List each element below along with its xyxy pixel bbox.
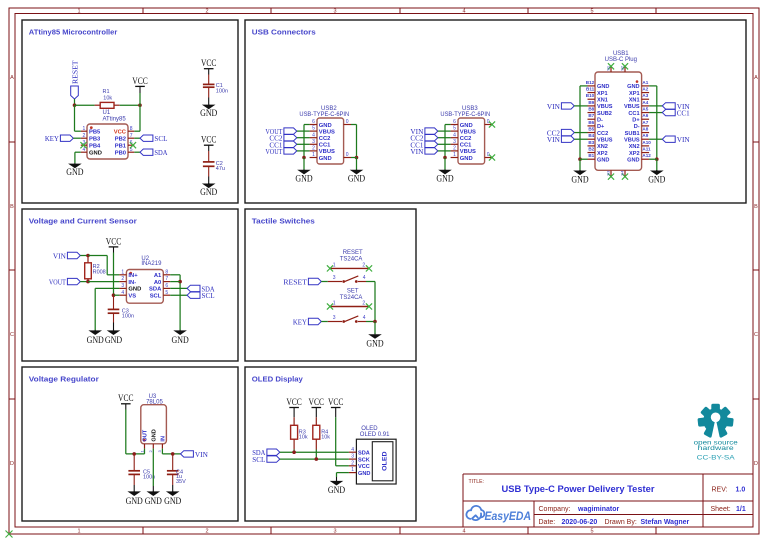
svg-text:A: A	[754, 75, 758, 81]
svg-text:8: 8	[130, 126, 133, 132]
svg-text:B1: B1	[588, 153, 594, 158]
svg-text:4: 4	[363, 315, 366, 321]
svg-text:A4: A4	[642, 100, 648, 105]
svg-text:VS: VS	[128, 294, 136, 300]
svg-text:GND: GND	[200, 187, 218, 197]
svg-text:VCC: VCC	[114, 130, 127, 136]
svg-text:GND: GND	[358, 471, 370, 477]
svg-text:1: 1	[83, 126, 86, 132]
svg-text:B: B	[754, 204, 758, 210]
svg-text:SDA: SDA	[154, 148, 168, 157]
svg-text:hardware: hardware	[698, 445, 734, 452]
svg-text:SUB1: SUB1	[625, 131, 640, 137]
svg-text:SCK: SCK	[358, 457, 370, 463]
svg-text:CC1: CC1	[628, 111, 639, 117]
svg-text:5: 5	[165, 290, 168, 296]
svg-text:A7: A7	[642, 120, 648, 125]
svg-text:3: 3	[351, 454, 354, 460]
svg-text:5: 5	[312, 126, 315, 132]
svg-text:B7: B7	[588, 113, 594, 118]
svg-text:C: C	[754, 332, 758, 338]
svg-text:VCC: VCC	[132, 76, 148, 86]
svg-text:A12: A12	[642, 153, 651, 158]
svg-text:Drawn By:: Drawn By:	[605, 519, 637, 526]
svg-text:SCL: SCL	[252, 455, 265, 464]
svg-text:D+: D+	[597, 124, 605, 130]
svg-text:IN+: IN+	[128, 273, 138, 279]
svg-text:VCC: VCC	[106, 236, 122, 246]
svg-text:INA219: INA219	[141, 261, 162, 267]
svg-text:D-: D-	[597, 117, 603, 123]
svg-text:Voltage Regulator: Voltage Regulator	[29, 374, 99, 383]
svg-text:VCC: VCC	[201, 58, 217, 68]
svg-text:R1: R1	[103, 89, 110, 95]
svg-text:D+: D+	[632, 117, 640, 123]
svg-text:wagiminator: wagiminator	[577, 506, 620, 513]
svg-text:4: 4	[121, 290, 124, 296]
svg-text:Date:: Date:	[539, 519, 556, 526]
svg-text:CC-BY-SA: CC-BY-SA	[697, 454, 736, 461]
svg-text:C: C	[10, 332, 14, 338]
svg-text:1: 1	[77, 529, 80, 535]
svg-text:A2: A2	[642, 87, 648, 92]
svg-text:CC2: CC2	[460, 136, 472, 142]
svg-text:A9: A9	[642, 133, 648, 138]
svg-text:EasyEDA: EasyEDA	[485, 509, 532, 523]
svg-text:1: 1	[121, 269, 124, 275]
svg-text:2: 2	[351, 460, 354, 466]
svg-text:PB0: PB0	[115, 151, 126, 157]
svg-text:RESET: RESET	[283, 278, 307, 287]
svg-text:KEY: KEY	[45, 134, 60, 143]
svg-text:XN2: XN2	[597, 144, 608, 150]
svg-text:RESET: RESET	[343, 250, 363, 256]
svg-text:1: 1	[333, 301, 336, 307]
svg-text:USB-TYPE-C-6PIN: USB-TYPE-C-6PIN	[299, 112, 349, 118]
svg-text:A8: A8	[642, 127, 648, 132]
svg-text:VIN: VIN	[195, 450, 209, 459]
svg-text:VBUS: VBUS	[597, 104, 613, 110]
svg-text:Sheet:: Sheet:	[711, 506, 731, 513]
svg-text:100n: 100n	[216, 88, 228, 94]
svg-text:Company:: Company:	[539, 506, 571, 513]
svg-text:KEY: KEY	[293, 318, 308, 327]
svg-text:OLED: OLED	[381, 451, 388, 471]
svg-text:VIN: VIN	[547, 102, 561, 111]
svg-text:XP1: XP1	[597, 91, 608, 97]
svg-text:Voltage and Current Sensor: Voltage and Current Sensor	[29, 216, 137, 225]
svg-text:D-: D-	[634, 124, 640, 130]
svg-text:VIN: VIN	[677, 135, 691, 144]
svg-text:GND: GND	[436, 173, 454, 183]
svg-text:TS24CA: TS24CA	[340, 295, 363, 301]
svg-text:3: 3	[312, 139, 315, 145]
svg-text:PB3: PB3	[89, 137, 101, 143]
svg-text:1.0: 1.0	[736, 486, 746, 493]
svg-text:VCC: VCC	[286, 397, 302, 407]
svg-text:U1: U1	[103, 110, 111, 116]
svg-text:6: 6	[453, 119, 456, 125]
svg-text:GND: GND	[460, 123, 473, 129]
svg-text:5: 5	[453, 126, 456, 132]
svg-text:CC1: CC1	[677, 109, 690, 118]
svg-text:CC1: CC1	[460, 143, 472, 149]
svg-text:0: 0	[346, 152, 349, 158]
svg-text:35V: 35V	[176, 479, 186, 485]
svg-text:B4: B4	[588, 133, 594, 138]
svg-text:4: 4	[312, 132, 315, 138]
svg-text:Tactile Switches: Tactile Switches	[252, 216, 315, 225]
svg-text:4: 4	[462, 9, 465, 15]
svg-text:XN2: XN2	[629, 144, 640, 150]
svg-text:B11: B11	[586, 87, 595, 92]
svg-text:VIN: VIN	[53, 252, 67, 261]
svg-text:VCC: VCC	[358, 464, 370, 470]
svg-text:Stefan Wagner: Stefan Wagner	[641, 519, 690, 526]
svg-text:A10: A10	[642, 140, 651, 145]
svg-text:GND: GND	[145, 496, 163, 506]
svg-text:IN-: IN-	[128, 280, 136, 286]
svg-text:GND: GND	[126, 496, 144, 506]
svg-text:S2: S2	[619, 65, 624, 71]
svg-text:IN: IN	[161, 436, 167, 442]
svg-text:CC2: CC2	[319, 136, 331, 142]
svg-text:2: 2	[312, 146, 315, 152]
svg-text:VBUS: VBUS	[624, 137, 640, 143]
svg-text:PB4: PB4	[89, 144, 101, 150]
svg-text:2: 2	[362, 262, 365, 268]
svg-text:GND: GND	[460, 156, 473, 162]
svg-text:XN1: XN1	[597, 97, 608, 103]
svg-text:1: 1	[312, 152, 315, 158]
svg-text:SUB2: SUB2	[597, 111, 612, 117]
svg-text:VIN: VIN	[547, 135, 561, 144]
svg-text:B12: B12	[586, 80, 595, 85]
svg-text:USB-C Plug: USB-C Plug	[605, 57, 637, 63]
svg-text:OLED 0.91: OLED 0.91	[360, 432, 390, 438]
svg-text:RESET: RESET	[71, 60, 80, 84]
svg-text:GND: GND	[200, 108, 218, 118]
svg-text:GND: GND	[66, 167, 84, 177]
svg-text:100n: 100n	[122, 314, 134, 320]
svg-text:4: 4	[351, 447, 354, 453]
svg-text:GND: GND	[627, 84, 639, 90]
svg-text:GND: GND	[105, 335, 123, 345]
svg-text:4: 4	[83, 147, 86, 153]
svg-text:GND: GND	[152, 429, 158, 441]
svg-text:47u: 47u	[216, 166, 225, 172]
svg-text:GND: GND	[172, 335, 190, 345]
svg-text:CC1: CC1	[319, 143, 331, 149]
svg-text:5: 5	[590, 529, 593, 535]
svg-text:B9: B9	[588, 100, 594, 105]
svg-text:6: 6	[312, 119, 315, 125]
svg-text:GND: GND	[571, 175, 589, 185]
svg-text:4: 4	[453, 132, 456, 138]
svg-text:SCL: SCL	[150, 294, 162, 300]
svg-text:GND: GND	[319, 123, 332, 129]
svg-text:XP2: XP2	[629, 151, 640, 157]
svg-text:1: 1	[77, 9, 80, 15]
svg-text:2: 2	[205, 529, 208, 535]
svg-text:1: 1	[333, 262, 336, 268]
svg-text:SDA: SDA	[149, 287, 162, 293]
svg-text:B8: B8	[588, 107, 594, 112]
svg-text:GND: GND	[328, 485, 346, 495]
svg-text:B2: B2	[588, 147, 594, 152]
svg-text:A1: A1	[642, 80, 648, 85]
svg-text:ATtiny85 Microcontroller: ATtiny85 Microcontroller	[29, 27, 118, 36]
svg-text:PB1: PB1	[115, 144, 127, 150]
svg-text:PB2: PB2	[115, 137, 126, 143]
svg-text:SDA: SDA	[358, 450, 370, 456]
svg-text:VBUS: VBUS	[597, 137, 613, 143]
svg-text:SET: SET	[347, 288, 359, 294]
svg-text:A11: A11	[642, 147, 651, 152]
svg-text:VBUS: VBUS	[460, 129, 476, 135]
svg-text:GND: GND	[87, 335, 105, 345]
svg-text:VCC: VCC	[201, 135, 217, 145]
svg-text:A1: A1	[154, 273, 162, 279]
svg-text:3: 3	[333, 529, 336, 535]
svg-text:5: 5	[590, 9, 593, 15]
svg-text:A: A	[10, 75, 14, 81]
svg-text:B10: B10	[586, 93, 595, 98]
svg-text:6: 6	[165, 283, 168, 289]
svg-text:VOUT: VOUT	[265, 147, 282, 156]
svg-text:GND: GND	[89, 151, 102, 157]
svg-text:1: 1	[351, 467, 354, 473]
svg-text:R008: R008	[93, 269, 106, 275]
svg-text:VCC: VCC	[328, 397, 344, 407]
svg-text:10k: 10k	[103, 95, 112, 101]
svg-text:4: 4	[462, 529, 465, 535]
svg-text:10k: 10k	[299, 434, 308, 440]
svg-text:XN1: XN1	[629, 97, 640, 103]
svg-text:2: 2	[362, 301, 365, 307]
svg-text:S4: S4	[619, 170, 624, 176]
svg-text:1/1: 1/1	[736, 506, 746, 513]
svg-text:USB-TYPE-C-6PIN: USB-TYPE-C-6PIN	[440, 112, 490, 118]
svg-text:3: 3	[121, 283, 124, 289]
svg-text:GND: GND	[164, 496, 182, 506]
svg-text:1: 1	[453, 152, 456, 158]
svg-text:USB Type-C Power Delivery Test: USB Type-C Power Delivery Tester	[502, 484, 655, 494]
svg-text:3: 3	[453, 139, 456, 145]
svg-text:OLED: OLED	[361, 426, 378, 432]
svg-text:XP1: XP1	[629, 91, 640, 97]
svg-text:VBUS: VBUS	[624, 104, 640, 110]
svg-text:2: 2	[205, 9, 208, 15]
svg-text:S1: S1	[605, 65, 610, 71]
svg-text:USB Connectors: USB Connectors	[252, 27, 316, 36]
svg-text:B6: B6	[588, 120, 594, 125]
svg-text:B: B	[10, 204, 14, 210]
svg-text:A0: A0	[154, 280, 161, 286]
svg-text:USB1: USB1	[613, 51, 629, 57]
svg-text:TITLE:: TITLE:	[469, 479, 485, 485]
svg-text:SCL: SCL	[202, 291, 215, 300]
svg-text:VCC: VCC	[118, 393, 134, 403]
svg-text:3: 3	[333, 9, 336, 15]
svg-text:GND: GND	[348, 173, 366, 183]
svg-text:VIN: VIN	[410, 147, 424, 156]
svg-text:7: 7	[165, 276, 168, 282]
svg-text:GND: GND	[597, 84, 609, 90]
svg-text:A3: A3	[642, 93, 648, 98]
svg-text:VOUT: VOUT	[49, 278, 66, 287]
svg-text:SCL: SCL	[154, 134, 167, 143]
svg-text:VBUS: VBUS	[460, 149, 476, 155]
svg-text:VBUS: VBUS	[319, 129, 335, 135]
svg-text:3: 3	[333, 275, 336, 281]
svg-text:B3: B3	[588, 140, 594, 145]
svg-text:TS24CA: TS24CA	[340, 257, 363, 263]
svg-text:8: 8	[165, 269, 168, 275]
svg-text:0: 0	[346, 119, 349, 125]
svg-text:3: 3	[333, 315, 336, 321]
svg-text:A5: A5	[642, 107, 648, 112]
svg-text:XP2: XP2	[597, 151, 608, 157]
svg-text:GND: GND	[648, 175, 666, 185]
svg-text:GND: GND	[295, 173, 313, 183]
svg-text:4: 4	[363, 275, 366, 281]
svg-text:2: 2	[121, 276, 124, 282]
svg-text:B5: B5	[588, 127, 594, 132]
svg-text:2: 2	[453, 146, 456, 152]
svg-text:OLED Display: OLED Display	[252, 374, 304, 383]
svg-text:A6: A6	[642, 113, 648, 118]
svg-text:7: 7	[130, 133, 133, 139]
svg-text:ATtiny85: ATtiny85	[103, 117, 127, 123]
svg-text:VBUS: VBUS	[319, 149, 335, 155]
svg-text:PB5: PB5	[89, 130, 101, 136]
svg-text:S3: S3	[605, 170, 610, 176]
svg-text:D: D	[10, 461, 14, 467]
svg-text:GND: GND	[627, 157, 639, 163]
svg-text:REV:: REV:	[712, 486, 728, 493]
svg-text:GND: GND	[128, 287, 141, 293]
svg-text:CC2: CC2	[597, 131, 608, 137]
svg-text:2: 2	[83, 133, 86, 139]
svg-text:D: D	[754, 461, 758, 467]
svg-text:VCC: VCC	[309, 397, 325, 407]
svg-text:10k: 10k	[321, 434, 330, 440]
svg-text:GND: GND	[319, 156, 332, 162]
svg-text:OUT: OUT	[143, 429, 149, 441]
svg-text:GND: GND	[597, 157, 609, 163]
svg-text:2020-06-20: 2020-06-20	[562, 519, 598, 526]
svg-text:GND: GND	[366, 339, 384, 349]
